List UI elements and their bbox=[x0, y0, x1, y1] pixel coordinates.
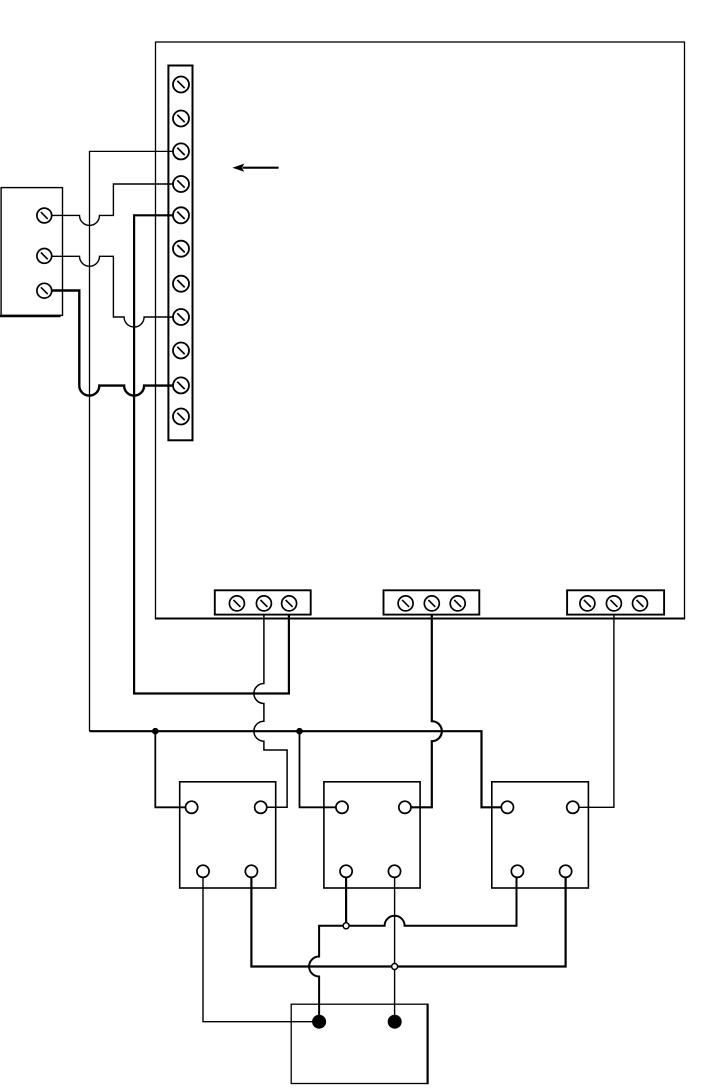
open junction node on rail A bbox=[343, 923, 349, 929]
relay box K3 bbox=[492, 782, 589, 888]
battery box bbox=[291, 1004, 427, 1083]
bus junction dot A bbox=[152, 728, 159, 735]
wire relay2 bottom-right to battery right terminal bbox=[394, 877, 396, 1021]
wire block3 middle screw to relay 3 top-right bbox=[579, 615, 614, 808]
terminal T7 bbox=[173, 276, 189, 292]
relay box K2 bbox=[324, 782, 420, 888]
terminal strip TB1 body bbox=[168, 66, 192, 441]
bottom terminal block B2 bbox=[384, 590, 480, 614]
main control panel enclosure bbox=[156, 42, 685, 619]
terminal T5 bbox=[173, 207, 189, 223]
wire bus drop to relay 2 top-left bbox=[300, 731, 336, 807]
left box screw S3 bbox=[37, 283, 52, 298]
left device box bbox=[1, 188, 62, 316]
wire block2 middle screw to relay 2 top-right (hops bus) bbox=[411, 615, 442, 808]
battery box right edge (heavier) bbox=[427, 1004, 429, 1085]
left box screw S2 bbox=[37, 249, 52, 264]
wire block1 middle screw to relay 1 top-right (hops bus and T5 wire) bbox=[254, 615, 287, 808]
open junction node on rail B bbox=[392, 964, 398, 970]
wire T5 to terminal block 1 right screw (thick net) bbox=[134, 215, 289, 693]
battery left terminal dot bbox=[312, 1015, 326, 1029]
terminal T1 bbox=[173, 77, 189, 93]
terminal T6 bbox=[173, 241, 189, 257]
battery right terminal dot bbox=[388, 1015, 402, 1029]
wire relay2 bottom-left to rail A bbox=[345, 877, 347, 925]
wire S3 to T10 (thick, hops over risers) bbox=[52, 291, 173, 396]
terminal T9 bbox=[173, 343, 189, 359]
direction arrow bbox=[232, 164, 278, 172]
bus junction dot B bbox=[296, 728, 303, 735]
terminal T3 bbox=[173, 143, 189, 159]
wire S1 to T4 (hop over T3 riser) bbox=[52, 184, 173, 225]
terminal T2 bbox=[173, 111, 189, 127]
wire relay1 bottom-left to battery left terminal bbox=[203, 877, 319, 1021]
panel bottom edge (heavier) bbox=[155, 618, 685, 620]
left box screw S1 bbox=[37, 208, 52, 223]
bottom terminal block B1 bbox=[215, 590, 311, 614]
wire bus drop to relay 1 top-left bbox=[155, 731, 185, 807]
rail B: relay1 bottom-right to relay3 bottom-right bbox=[251, 877, 565, 966]
relay box K1 bbox=[180, 782, 276, 888]
terminal T11 bbox=[173, 409, 189, 425]
bottom terminal block B3 bbox=[567, 590, 664, 614]
bus wire from T3 riser to relay 3 top-left bbox=[90, 731, 502, 807]
terminal T4 bbox=[173, 176, 189, 192]
wire T3 to left vertical riser bbox=[90, 151, 174, 731]
terminal T10 bbox=[173, 377, 189, 393]
rail A: relay3 bottom-left to left drop (hops rail B and x394 wire) bbox=[309, 877, 516, 1021]
left box bottom edge (heavier) bbox=[0, 315, 61, 318]
wire S2 to T8 (hops over risers) bbox=[52, 256, 173, 327]
terminal T8 bbox=[173, 309, 189, 325]
